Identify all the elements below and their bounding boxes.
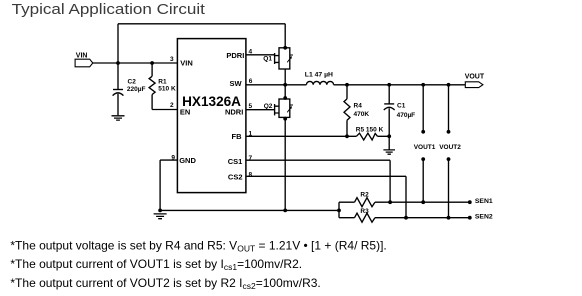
- svg-text:SEN2: SEN2: [475, 213, 493, 220]
- svg-text:*The output current of VOUT2 i: *The output current of VOUT2 is set by R…: [10, 276, 320, 291]
- svg-text:VIN: VIN: [76, 52, 88, 59]
- svg-text:1: 1: [249, 131, 253, 138]
- svg-text:FB: FB: [232, 132, 243, 141]
- svg-text:SW: SW: [230, 79, 243, 88]
- svg-text:SEN1: SEN1: [475, 198, 493, 205]
- svg-text:7: 7: [249, 155, 253, 162]
- svg-text:L1 47 µH: L1 47 µH: [305, 72, 333, 79]
- svg-text:CS2: CS2: [228, 173, 243, 182]
- svg-text:Q1: Q1: [263, 56, 272, 63]
- svg-text:PDRI: PDRI: [226, 51, 244, 60]
- svg-text:Typical Application Circuit: Typical Application Circuit: [12, 1, 206, 18]
- svg-text:R3: R3: [360, 208, 369, 215]
- svg-text:R4: R4: [354, 103, 363, 110]
- svg-text:6: 6: [249, 78, 253, 85]
- svg-text:2: 2: [170, 102, 174, 109]
- svg-text:470K: 470K: [354, 111, 370, 118]
- svg-text:5: 5: [249, 103, 253, 110]
- svg-text:VOUT2: VOUT2: [439, 144, 461, 151]
- svg-text:4: 4: [249, 48, 253, 55]
- svg-text:9: 9: [171, 155, 175, 162]
- svg-text:C2: C2: [128, 78, 137, 85]
- svg-text:C1: C1: [397, 103, 406, 110]
- svg-text:CS1: CS1: [228, 157, 243, 166]
- svg-text:510 K: 510 K: [158, 85, 176, 92]
- svg-text:GND: GND: [179, 156, 196, 165]
- svg-text:220µF: 220µF: [127, 86, 146, 93]
- svg-text:470µF: 470µF: [397, 112, 416, 119]
- svg-text:VOUT1: VOUT1: [414, 144, 436, 151]
- svg-text:Q2: Q2: [264, 103, 273, 110]
- svg-text:VOUT: VOUT: [465, 73, 485, 80]
- svg-text:VIN: VIN: [180, 59, 193, 68]
- svg-text:*The output voltage is set by: *The output voltage is set by R4 and R5:…: [10, 238, 386, 253]
- svg-text:HX1326A: HX1326A: [182, 93, 241, 109]
- svg-text:R5 150 K: R5 150 K: [356, 126, 384, 133]
- svg-text:R2: R2: [360, 192, 369, 199]
- svg-text:8: 8: [249, 172, 253, 179]
- svg-text:3: 3: [170, 56, 174, 63]
- svg-text:*The output current of VOUT1 i: *The output current of VOUT1 is set by I…: [10, 257, 302, 272]
